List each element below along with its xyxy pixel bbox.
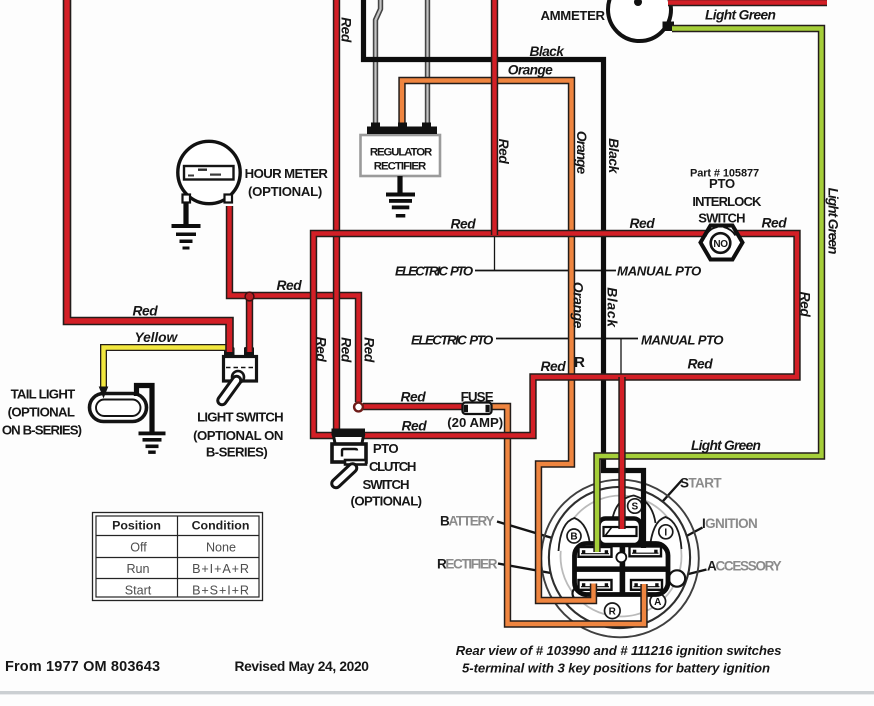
svg-text:Red: Red bbox=[339, 337, 354, 363]
svg-text:REGULATOR: REGULATOR bbox=[370, 146, 432, 158]
svg-text:Red: Red bbox=[401, 390, 427, 405]
svg-text:AMMETER: AMMETER bbox=[541, 8, 606, 23]
svg-text:Black: Black bbox=[530, 44, 566, 59]
svg-text:Red: Red bbox=[762, 216, 788, 231]
svg-text:Red: Red bbox=[314, 337, 329, 363]
svg-text:Yellow: Yellow bbox=[135, 330, 179, 345]
svg-text:Black: Black bbox=[606, 138, 621, 175]
svg-text:Light Green: Light Green bbox=[705, 8, 775, 23]
svg-text:SWITCH: SWITCH bbox=[362, 477, 408, 492]
svg-text:Red: Red bbox=[277, 278, 303, 293]
svg-text:Orange: Orange bbox=[571, 282, 586, 329]
svg-text:Red: Red bbox=[451, 217, 477, 232]
svg-text:ELECTRIC PTO: ELECTRIC PTO bbox=[411, 332, 494, 347]
svg-text:Run: Run bbox=[126, 562, 149, 576]
svg-text:HOUR METER: HOUR METER bbox=[245, 166, 329, 181]
svg-text:Position: Position bbox=[112, 519, 161, 533]
svg-text:Light Green: Light Green bbox=[691, 438, 760, 453]
svg-text:Orange: Orange bbox=[508, 63, 553, 78]
svg-text:Red: Red bbox=[630, 216, 656, 231]
svg-text:Condition: Condition bbox=[192, 519, 250, 533]
svg-text:Red: Red bbox=[133, 304, 159, 319]
svg-text:SWITCH: SWITCH bbox=[698, 211, 745, 226]
svg-text:ACCESSORY: ACCESSORY bbox=[707, 558, 782, 573]
svg-text:PTO: PTO bbox=[373, 441, 399, 456]
svg-text:INTERLOCK: INTERLOCK bbox=[692, 194, 762, 209]
svg-text:IGNITION: IGNITION bbox=[702, 516, 757, 531]
svg-text:FUSE: FUSE bbox=[461, 389, 494, 404]
svg-text:(OPTIONAL): (OPTIONAL) bbox=[351, 494, 422, 509]
svg-text:MANUAL PTO: MANUAL PTO bbox=[617, 264, 702, 279]
svg-text:(20 AMP): (20 AMP) bbox=[447, 415, 503, 430]
svg-text:RECTIFIER: RECTIFIER bbox=[374, 161, 426, 173]
svg-text:Red: Red bbox=[339, 17, 354, 43]
svg-text:(OPTIONAL ON: (OPTIONAL ON bbox=[193, 428, 283, 443]
svg-text:(OPTIONAL: (OPTIONAL bbox=[8, 405, 75, 420]
svg-text:START: START bbox=[680, 475, 722, 490]
svg-text:TAIL LIGHT: TAIL LIGHT bbox=[11, 387, 75, 402]
svg-text:PTO: PTO bbox=[709, 176, 735, 191]
svg-text:ON B-SERIES): ON B-SERIES) bbox=[2, 423, 82, 438]
svg-text:B-SERIES): B-SERIES) bbox=[206, 445, 267, 460]
svg-text:Red: Red bbox=[362, 337, 377, 363]
svg-text:Rear view of # 103990 and # 11: Rear view of # 103990 and # 111216 ignit… bbox=[456, 643, 782, 658]
svg-text:Red: Red bbox=[798, 292, 813, 318]
svg-text:None: None bbox=[206, 541, 236, 555]
svg-text:Red: Red bbox=[541, 359, 567, 374]
svg-text:RECTIFIER: RECTIFIER bbox=[437, 557, 498, 572]
svg-text:Revised May 24, 2020: Revised May 24, 2020 bbox=[235, 659, 370, 674]
svg-text:Off: Off bbox=[130, 541, 147, 555]
svg-text:(OPTIONAL): (OPTIONAL) bbox=[248, 184, 322, 199]
svg-text:From 1977 OM 803643: From 1977 OM 803643 bbox=[5, 659, 160, 675]
svg-text:I: I bbox=[664, 527, 667, 538]
svg-text:5-terminal with 3 key position: 5-terminal with 3 key positions for batt… bbox=[462, 661, 770, 676]
svg-text:Red: Red bbox=[496, 139, 511, 165]
svg-text:Light Green: Light Green bbox=[826, 188, 841, 254]
svg-text:NO: NO bbox=[713, 239, 728, 250]
svg-text:B+I+A+R: B+I+A+R bbox=[192, 562, 250, 576]
svg-text:Start: Start bbox=[125, 584, 152, 598]
svg-text:MANUAL PTO: MANUAL PTO bbox=[641, 332, 724, 347]
svg-text:R: R bbox=[574, 354, 585, 371]
svg-text:B+S+I+R: B+S+I+R bbox=[192, 584, 250, 598]
svg-text:ELECTRIC PTO: ELECTRIC PTO bbox=[395, 264, 474, 279]
svg-text:CLUTCH: CLUTCH bbox=[369, 459, 416, 474]
svg-text:LIGHT SWITCH: LIGHT SWITCH bbox=[197, 410, 283, 425]
svg-text:Orange: Orange bbox=[574, 131, 589, 175]
svg-text:Red: Red bbox=[688, 357, 714, 372]
svg-text:S: S bbox=[631, 502, 638, 513]
svg-text:R: R bbox=[609, 606, 617, 617]
svg-text:Black: Black bbox=[605, 287, 620, 328]
svg-text:BATTERY: BATTERY bbox=[440, 514, 494, 529]
svg-text:Red: Red bbox=[402, 419, 428, 434]
svg-text:A: A bbox=[654, 597, 661, 608]
svg-text:B: B bbox=[570, 532, 577, 543]
